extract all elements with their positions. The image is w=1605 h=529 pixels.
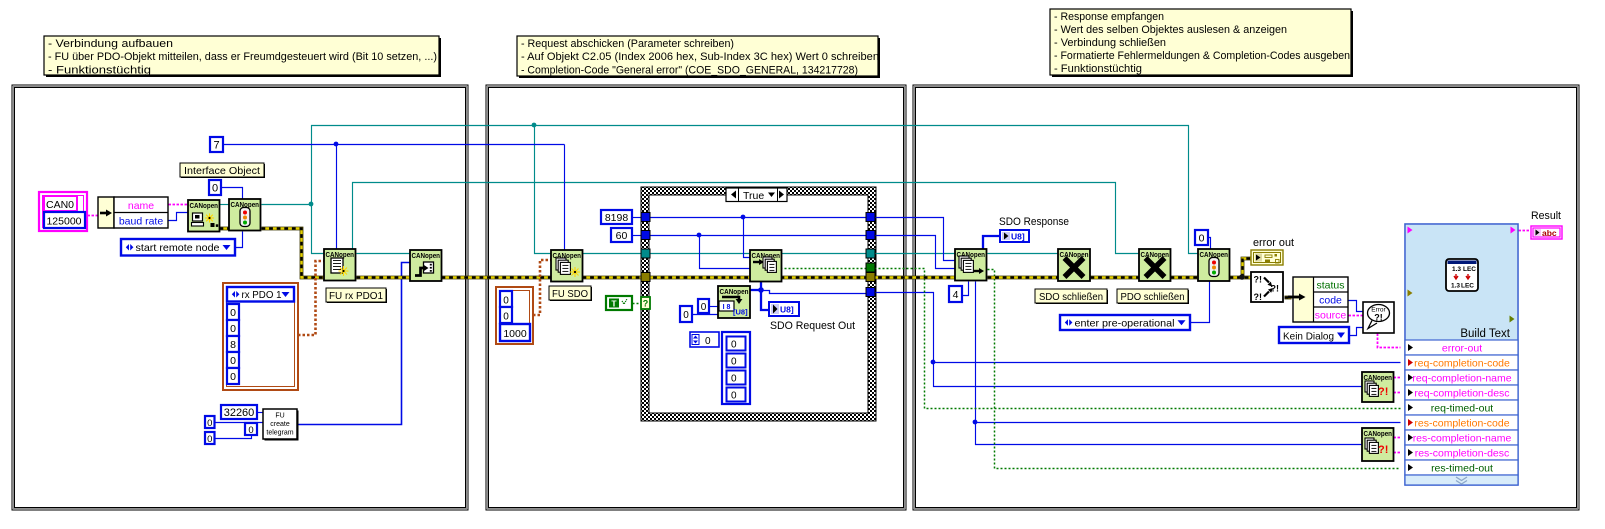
svg-text:?!: ?! — [1254, 292, 1263, 302]
wire read node bottom output to res-completion-code row and CANopen?! 2 — [976, 282, 1401, 445]
junction blue at 975,422 — [973, 420, 978, 425]
cluster constant CAN0 / 125000 — [39, 192, 87, 231]
constant 0 above traffic node — [1195, 230, 1208, 245]
svg-text:code: code — [1319, 295, 1342, 307]
wire Error?! to Build Text error-out row (pink) — [1378, 334, 1401, 348]
Build Text row req-timed-out — [1405, 400, 1518, 415]
svg-text:CANopen: CANopen — [1141, 250, 1170, 259]
wire error cluster node1-node2 — [220, 227, 230, 231]
case tunnel teal left 253 — [641, 249, 650, 258]
wire error SDO schliessen to PDO schliessen — [1091, 276, 1140, 280]
cluster constant 0/0/1000 — [496, 287, 533, 344]
svg-text:SDO schließen: SDO schließen — [1039, 291, 1103, 303]
indicator Result — [1531, 210, 1562, 239]
comment box: Verbindung aufbauen — [44, 36, 441, 77]
wire node-id 7 (blue) — [224, 145, 565, 251]
svg-text:res-completion-code: res-completion-code — [1414, 418, 1509, 430]
svg-text:?!: ?! — [1378, 444, 1388, 456]
array constant 0,0,0,0 in case — [690, 332, 750, 404]
svg-text:- Auf Objekt C2.05 (Index 2006: - Auf Objekt C2.05 (Index 2006 hex, Sub-… — [521, 51, 879, 63]
case tunnel green right 268 — [866, 263, 875, 272]
svg-text:FU: FU — [275, 413, 284, 420]
node U11 enter pre-operational (traffic light) — [1198, 249, 1230, 281]
case tunnel blue right 235 — [866, 231, 875, 240]
junction error at 1242,277 — [1239, 274, 1245, 280]
wire error PDO schliessen to traffic node — [1171, 276, 1199, 280]
cluster rx PDO 1 constant — [223, 283, 298, 390]
svg-text:- Verbindung schließen: - Verbindung schließen — [1054, 37, 1166, 49]
wire teal node3 to node4 — [357, 253, 411, 255]
svg-text:0: 0 — [731, 340, 737, 351]
wire PDO refnum (teal) from node3 top to PDO schliessen node — [353, 183, 1140, 254]
node U1 CANopen interface open (computer+burst) — [188, 200, 220, 232]
wire cluster to bundle node (pink) — [88, 215, 99, 217]
svg-text:1.3: 1.3 — [1452, 266, 1461, 273]
wire teal branch down to FU rx PDO1 node — [312, 205, 325, 254]
svg-text:LEC: LEC — [1463, 266, 1476, 273]
wire boolean req-timed-out to Build Text — [871, 269, 1401, 409]
case selector terminal ? — [641, 297, 650, 309]
svg-text:0: 0 — [207, 418, 212, 429]
wire error node2 to node3 — [262, 229, 325, 278]
wires CANopen?! 2 outputs to rows (pink) — [1394, 438, 1401, 453]
wire error traffic node to error-out and ?! vi — [1230, 259, 1252, 278]
svg-text:req-timed-out: req-timed-out — [1431, 403, 1494, 415]
wire name string to node1 (pink) — [169, 204, 189, 206]
wire FU create telegram output to node4 — [298, 263, 411, 425]
svg-text:0: 0 — [230, 323, 236, 335]
svg-text:Interface Object: Interface Object — [184, 165, 260, 177]
constant 8198 — [601, 210, 632, 224]
label Interface Object — [180, 163, 265, 178]
constant 32260 — [221, 405, 257, 419]
junction blue at 336,144 — [334, 142, 339, 147]
svg-text:enter pre-operational: enter pre-operational — [1075, 317, 1175, 329]
subVI Error?! dialog — [1363, 302, 1394, 333]
node U7 FU create SDO telegram (in case) — [718, 286, 750, 318]
svg-text:- Response empfangen: - Response empfangen — [1054, 11, 1164, 23]
svg-text:U8]: U8] — [780, 305, 794, 315]
svg-text:T: T — [611, 299, 617, 309]
svg-text:0: 0 — [248, 425, 253, 436]
enum Kein Dialog — [1279, 327, 1349, 343]
svg-text:CAN0: CAN0 — [46, 199, 74, 211]
case selector label True — [726, 188, 787, 202]
Build Text expand chevron strip — [1405, 475, 1518, 485]
case tunnel blue left 235 — [641, 231, 650, 240]
svg-text:CANopen: CANopen — [720, 287, 749, 296]
svg-text:4: 4 — [953, 289, 959, 301]
case structure (True case) — [641, 187, 876, 421]
frame 3 (sequence frame: Response empfangen) — [913, 85, 1579, 510]
wire error ?! vi to unbundle — [1285, 296, 1292, 300]
node U6 SDO request transfer (arrow+papers) inside case — [750, 250, 782, 282]
indicator SDO Response [U8] — [999, 216, 1069, 242]
constant 7 — [210, 137, 223, 152]
svg-text:U8]: U8] — [1011, 232, 1025, 242]
junction blue at 761,290 — [758, 287, 764, 293]
bundle node name/baud rate — [98, 197, 168, 228]
svg-text:0: 0 — [503, 296, 509, 307]
svg-text:0: 0 — [1199, 233, 1205, 245]
svg-text:- Formatierte Fehlermeldungen: - Formatierte Fehlermeldungen & Completi… — [1054, 50, 1350, 62]
node U8 SDO read response (papers+arrow) — [955, 249, 987, 281]
Build Text row req-completion-code — [1405, 355, 1518, 370]
node U3 FU rx PDO1 (document+burst) — [324, 249, 356, 281]
case tunnel blue left 217 — [641, 213, 650, 222]
wire error node4 to FU SDO — [442, 276, 552, 280]
junction teal at 534,125 — [532, 123, 537, 128]
frame 2 (sequence frame: Request abschicken) — [486, 85, 906, 510]
wire SDO refnum (teal) FU SDO to case and to SDO schliessen — [583, 253, 1059, 255]
Build Text row res-timed-out — [1405, 460, 1518, 475]
node U10 PDO close (X) — [1139, 249, 1171, 281]
svg-text:req-completion-desc: req-completion-desc — [1414, 388, 1509, 400]
svg-text:?!: ?! — [1254, 275, 1263, 285]
boolean constant True — [606, 296, 632, 310]
svg-text:CANopen: CANopen — [1364, 429, 1393, 438]
svg-text:FU SDO: FU SDO — [552, 288, 588, 300]
label SDO schliessen — [1035, 289, 1108, 304]
junction blue at 933,362 — [931, 360, 936, 365]
wire SDO Response indicator (thick blue) — [983, 236, 1000, 249]
svg-text:SDO Response: SDO Response — [999, 216, 1069, 228]
wire error FU SDO to case — [583, 276, 646, 280]
svg-text:create: create — [270, 421, 290, 428]
svg-text:req-completion-code: req-completion-code — [1414, 358, 1510, 370]
wire error read node to SDO schliessen — [988, 276, 1059, 280]
svg-text:[U8]: [U8] — [733, 308, 748, 317]
node U4 write PDO (arrow into doc) — [410, 250, 442, 281]
subVI FU create telegram — [263, 409, 299, 441]
svg-text:125000: 125000 — [46, 216, 81, 228]
svg-text:res-completion-desc: res-completion-desc — [1415, 448, 1510, 460]
svg-text:CANopen: CANopen — [1060, 250, 1089, 259]
constant 0 (telegram in case a) — [698, 299, 709, 313]
wire enum start remote node to node2 — [236, 232, 243, 248]
subVI clear errors ?! — [1251, 272, 1283, 302]
wire error inside case — [646, 276, 871, 280]
junction blue at 699,235 — [697, 233, 702, 238]
Build Text row req-completion-name — [1405, 370, 1518, 385]
svg-text:1.3: 1.3 — [1451, 283, 1460, 290]
wire SDO request array (thick blue) inside case — [750, 281, 871, 310]
label FU SDO — [549, 286, 592, 301]
wire 0 constants to telegram node in case — [693, 307, 719, 315]
svg-text:8198: 8198 — [605, 212, 629, 224]
svg-text:?!: ?! — [1378, 386, 1388, 398]
wire code to Error?! dialog — [1349, 301, 1364, 312]
wire constant 4 to read node — [963, 282, 969, 296]
svg-text:- Verbindung aufbauen: - Verbindung aufbauen — [48, 38, 173, 50]
wire teal branch down to FU SDO node — [535, 126, 552, 254]
wire interface object 0 to node2 — [222, 188, 243, 200]
comment box: Request abschicken — [517, 36, 880, 78]
svg-text:name: name — [128, 200, 154, 212]
junction blue at 743,217 — [741, 215, 746, 220]
svg-text:PDO schließen: PDO schließen — [1121, 291, 1185, 303]
svg-text:- Completion-Code "General err: - Completion-Code "General error" (COE_S… — [521, 64, 858, 76]
express VI Build Text — [1405, 224, 1518, 485]
svg-text:- Funktionstüchtig: - Funktionstüchtig — [48, 64, 151, 76]
svg-text:FU rx PDO1: FU rx PDO1 — [329, 290, 383, 302]
wire Build Text result to Result indicator (pink) — [1519, 230, 1532, 232]
Build Text row res-completion-desc — [1405, 445, 1518, 460]
wire Kein Dialog enum to Error?! — [1350, 328, 1364, 336]
svg-text:0: 0 — [230, 371, 236, 383]
node U12 CANopen completion code to text 1 (?!) — [1362, 372, 1394, 402]
svg-text:0: 0 — [731, 374, 737, 385]
svg-text:0: 0 — [731, 357, 737, 368]
svg-text:?: ? — [643, 299, 649, 309]
wire CAN interface refnum (teal) node1-node2 — [220, 204, 230, 206]
wire source string to Error?! (pink) — [1349, 315, 1364, 317]
wire create telegram inputs — [215, 413, 264, 439]
wire CAN interface refnum (teal) main run to frame3 traffic node — [262, 126, 1199, 254]
wire error case to read node — [871, 276, 956, 280]
svg-text:LEC: LEC — [1461, 283, 1474, 290]
label FU rx PDO1 — [326, 288, 387, 303]
svg-text:abc: abc — [1542, 228, 1557, 238]
svg-text:res-completion-name: res-completion-name — [1413, 433, 1512, 445]
case tunnel blue right 292 — [866, 288, 875, 297]
svg-text:- FU über PDO-Objekt mitteilen: - FU über PDO-Objekt mitteilen, dass er … — [48, 51, 437, 63]
case tunnel error left 277 — [641, 273, 650, 282]
svg-text:1000: 1000 — [503, 328, 527, 340]
svg-text:start remote node: start remote node — [136, 242, 220, 254]
Build Text row res-completion-code — [1405, 415, 1518, 430]
svg-text:0: 0 — [207, 434, 212, 445]
svg-text:60: 60 — [616, 230, 628, 242]
indicator SDO Request Out [U8] — [769, 302, 855, 332]
svg-text:rx PDO 1: rx PDO 1 — [242, 289, 282, 301]
svg-text:0: 0 — [731, 391, 737, 402]
constant 0 (telegram in case b) — [680, 306, 692, 322]
wire boolean timed-out inside case — [781, 268, 871, 270]
wire boolean TF to case selector — [633, 303, 642, 305]
svg-text:telegram: telegram — [266, 430, 293, 437]
svg-text:error out: error out — [1253, 237, 1294, 249]
wire case output to req-completion-code row and CANopen?! 1 — [871, 293, 1401, 387]
wire 60 sub-index (blue) through case to read node — [633, 236, 956, 269]
svg-text:baud rate: baud rate — [119, 216, 164, 228]
wire rx PDO cluster to node3 (brown) — [298, 261, 324, 335]
svg-text:0: 0 — [503, 312, 509, 323]
svg-text:0: 0 — [683, 310, 689, 321]
wire 8198 index (blue) through case to read node — [633, 218, 956, 261]
svg-text:8: 8 — [230, 339, 236, 351]
wire boolean res-timed-out to Build Text — [988, 270, 1401, 469]
Build Text row error-out — [1405, 340, 1518, 355]
constant 4 — [949, 286, 962, 302]
wire baud rate to node1 — [169, 213, 189, 221]
svg-text:0: 0 — [230, 307, 236, 319]
label PDO schliessen — [1117, 289, 1189, 304]
Build Text row res-completion-name — [1405, 430, 1518, 445]
case tunnel blue right 217 — [866, 213, 875, 222]
node U13 CANopen completion code to text 2 (?!) — [1362, 428, 1394, 461]
constant 0 (create telegram c) — [245, 423, 257, 436]
svg-text:?!: ?! — [1374, 313, 1383, 323]
enum start remote node — [121, 239, 235, 256]
svg-text:0: 0 — [705, 336, 711, 347]
enum enter pre-operational — [1060, 315, 1190, 330]
wire 0/0/1000 cluster to FU SDO (brown) — [533, 260, 551, 315]
node U9 SDO close (X) — [1058, 249, 1090, 281]
svg-text:SDO Request Out: SDO Request Out — [770, 320, 855, 332]
junction teal at 311,204 — [309, 202, 314, 207]
constant 0 (create telegram b) — [205, 432, 215, 445]
svg-text:res-timed-out: res-timed-out — [1431, 463, 1493, 475]
constant 0 (create telegram a) — [205, 416, 215, 429]
svg-text:source: source — [1315, 310, 1347, 322]
unbundle by name status/code/source — [1288, 277, 1348, 322]
svg-text:7: 7 — [213, 140, 219, 152]
case tunnel error right 277 — [866, 273, 875, 282]
svg-text:I 8: I 8 — [723, 304, 731, 311]
indicator error out — [1251, 237, 1294, 265]
svg-text:- Request abschicken (Paramete: - Request abschicken (Parameter schreibe… — [521, 38, 734, 50]
svg-text:0: 0 — [230, 355, 236, 367]
svg-text:Build Text: Build Text — [1460, 328, 1510, 340]
wire enum enter pre-operational to traffic node — [1191, 282, 1210, 323]
case tunnel teal right 253 — [866, 249, 875, 258]
svg-text:req-completion-name: req-completion-name — [1412, 373, 1511, 385]
svg-text:Kein Dialog: Kein Dialog — [1283, 331, 1334, 343]
svg-text:status: status — [1316, 280, 1344, 292]
frame 1 (sequence frame: Verbindung aufbauen) — [12, 85, 468, 510]
svg-text:Result: Result — [1531, 210, 1561, 222]
wire 0 constant to traffic node top — [1208, 238, 1211, 250]
svg-text:- Funktionstüchtig: - Funktionstüchtig — [1054, 63, 1142, 75]
svg-text:32260: 32260 — [224, 407, 255, 419]
constant 0 interface object — [209, 180, 221, 195]
wire error node3 to node4 — [357, 276, 411, 280]
wires CANopen?! 1 outputs to rows (pink) — [1394, 378, 1401, 393]
node U2 CANopen start remote node (traffic light) — [229, 199, 261, 231]
svg-text:CANopen: CANopen — [190, 201, 219, 210]
Build Text row req-completion-desc — [1405, 385, 1518, 400]
constant 60 — [611, 228, 632, 242]
svg-text:True: True — [743, 190, 764, 202]
svg-text:0: 0 — [701, 302, 707, 313]
svg-text:- Wert des selben Objektes aus: - Wert des selben Objektes auslesen & an… — [1054, 24, 1287, 36]
node U5 FU SDO open (papers+burst) — [551, 250, 583, 282]
svg-text:CANopen: CANopen — [412, 251, 441, 260]
svg-text:0: 0 — [212, 183, 218, 195]
comment box: Response empfangen — [1050, 9, 1353, 77]
svg-text:error-out: error-out — [1442, 343, 1482, 355]
